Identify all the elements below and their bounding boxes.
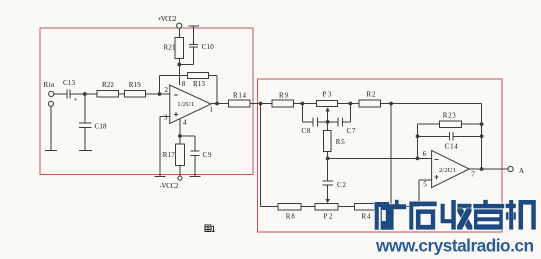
char shou 收 <box>441 200 472 230</box>
wire node down left rail <box>260 104 262 207</box>
potentiometer P3 <box>316 100 337 106</box>
svg-text:3: 3 <box>164 114 168 122</box>
P2 wiper arrow <box>325 199 329 203</box>
wire R4 to pin 5 branch <box>375 206 419 208</box>
wire C14 left <box>418 135 450 137</box>
ground bar below C9 <box>190 175 201 177</box>
U1b minus sign <box>434 159 438 161</box>
resistor R19 <box>124 91 145 97</box>
svg-text:R14: R14 <box>233 92 247 100</box>
input terminal Rin upper <box>49 91 54 96</box>
wire R2 node down to bottom rail <box>390 104 392 207</box>
wire C8 to wiper node <box>318 121 328 123</box>
capacitor C9 <box>190 151 199 155</box>
svg-text:C7: C7 <box>347 127 357 135</box>
wire pin4 node to R17 <box>179 136 181 144</box>
svg-text:C9: C9 <box>203 151 213 159</box>
resistor R22 <box>97 91 118 97</box>
wire bottom rail left <box>261 206 279 208</box>
resistor R4 <box>354 204 374 210</box>
node junction R21/C10/pin8 <box>177 63 181 67</box>
input terminal Rin lower <box>48 101 53 106</box>
wire wiper node down to R5 <box>327 122 329 131</box>
wire R2 right to corner <box>380 103 481 105</box>
svg-text:R5: R5 <box>336 138 346 146</box>
wire feedback to R13 <box>160 75 188 77</box>
U1 plus sign <box>174 112 178 116</box>
node junction R19/feedback/pin2 <box>158 92 162 96</box>
svg-text:P2: P2 <box>324 213 334 221</box>
wire +VCC2 terminal to R21 <box>178 28 180 37</box>
left red box (input stage frame) <box>40 28 253 175</box>
wire junction down to op-amp pin 8 <box>178 65 180 85</box>
svg-text:C13: C13 <box>63 79 76 87</box>
wire pin4 node to C9 <box>180 135 195 137</box>
svg-text:1/2U1: 1/2U1 <box>177 101 194 108</box>
svg-text:-VCC2: -VCC2 <box>160 182 180 190</box>
wire R17 to -VCC2 terminal <box>179 166 181 176</box>
resistor R13 <box>188 72 209 78</box>
node junction wiper/C8/C7/R5 <box>326 120 330 124</box>
svg-text:R19: R19 <box>129 81 142 89</box>
node junction R9/C8/P3 <box>301 102 305 106</box>
C10 +VCC2 tap bar <box>189 25 200 27</box>
P3 wiper arrow <box>325 107 329 111</box>
node junction pin6/feedback <box>416 157 420 161</box>
svg-text:5: 5 <box>423 180 427 188</box>
op-amp U1 (1/2U1) <box>170 85 211 124</box>
svg-text:7: 7 <box>471 171 475 179</box>
node junction R2/bottom vertical <box>389 102 393 106</box>
wire R8 to P2 <box>301 206 315 208</box>
wire feedback left vertical <box>417 124 419 158</box>
resistor R9 <box>272 100 293 107</box>
char ji 机 <box>506 200 536 230</box>
wire to C8 <box>302 121 312 123</box>
resistor R5 <box>323 131 331 152</box>
wire C13 to junction <box>71 93 97 95</box>
wire C18 to ground <box>84 127 86 150</box>
wire op-amp 1 output to R14 <box>211 103 229 105</box>
resistor R21 <box>175 37 183 58</box>
wire R13 branch down to node 1 <box>216 76 218 104</box>
capacitor C13 <box>67 89 70 98</box>
node output 1 junction <box>215 102 219 106</box>
resistor R2 <box>359 100 380 107</box>
svg-text:P3: P3 <box>323 91 333 99</box>
ground bar below pin 3 <box>155 175 166 177</box>
wire lower input terminal to ground <box>50 107 52 151</box>
svg-text:2: 2 <box>165 86 169 94</box>
svg-text:C14: C14 <box>445 142 459 150</box>
char shi 石 <box>409 202 436 230</box>
wire op-amp pin 3 stub <box>160 115 170 117</box>
ground bar below C18 <box>79 150 92 152</box>
wire op-amp pin 4 down <box>179 119 181 136</box>
op-amp U1b (2/2U1) <box>432 150 470 187</box>
svg-text:R8: R8 <box>286 213 296 221</box>
wire C9 top vertical <box>194 136 196 151</box>
svg-text:R21: R21 <box>164 44 177 52</box>
wire op-amp 2 output to terminal A <box>469 168 508 170</box>
node junction R5/C2/pin6 wire <box>326 157 330 161</box>
node junction pin4/R17/C9 <box>178 134 182 138</box>
wire junction down to C18 <box>84 94 86 123</box>
svg-text:2/2U1: 2/2U1 <box>439 167 456 174</box>
svg-text:www.crystalradio.cn: www.crystalradio.cn <box>375 236 534 256</box>
svg-text:R2: R2 <box>367 91 377 99</box>
U1b plus sign <box>434 175 438 179</box>
resistor R14 <box>229 100 250 107</box>
right red box (tone control frame) <box>258 79 503 232</box>
wire C9 to ground <box>194 155 196 176</box>
svg-text:1: 1 <box>210 106 214 114</box>
svg-text:R9: R9 <box>279 92 289 100</box>
wire junction to C10 bottom <box>179 64 193 66</box>
wire R21 to junction <box>178 59 180 65</box>
svg-text:C18: C18 <box>95 123 108 131</box>
char kuang 矿 <box>375 200 407 230</box>
wire R5 node to op-amp 2 pin 6 <box>328 157 432 159</box>
capacitor C8 <box>313 118 317 127</box>
svg-text:4: 4 <box>183 119 187 127</box>
ground bar below Rin <box>45 150 57 152</box>
resistor R17 <box>176 144 185 166</box>
wire up to node after P3 <box>349 104 351 122</box>
node junction output 7 <box>480 167 484 171</box>
svg-text:R13: R13 <box>193 80 206 88</box>
wire C7 to right vertical <box>343 121 351 123</box>
svg-text:R23: R23 <box>443 112 457 120</box>
node junction R14/R9/bottom rail <box>259 102 263 106</box>
node junction P3/C7/R2 <box>349 102 353 106</box>
wire R22 to R19 <box>118 93 124 95</box>
wire P3 right to R2 <box>337 103 359 105</box>
wire to R23 <box>418 123 440 125</box>
wire P3 wiper <box>327 111 329 122</box>
svg-text:R4: R4 <box>362 213 372 221</box>
wire R19 to op-amp pin 2 <box>145 93 170 95</box>
potentiometer P2 <box>315 204 338 210</box>
wire pin 5 vertical <box>418 180 420 207</box>
node junction C13/C18/R22 <box>83 92 87 96</box>
wire C2 top <box>327 158 329 180</box>
watermark 矿石收音机 (drawn strokes) <box>375 200 536 230</box>
svg-text:A: A <box>519 167 524 175</box>
wire C2 bottom to P2 wiper <box>327 185 329 201</box>
-VCC2 terminal <box>178 176 182 180</box>
wire R14 to right section node <box>250 103 272 105</box>
capacitor C10 <box>189 44 198 47</box>
wire pin 3 down to ground <box>159 116 161 176</box>
node junction C14 left <box>416 134 420 138</box>
wire C10 top to +VCC2 bar <box>193 26 195 44</box>
wire node down to C8 <box>301 104 303 122</box>
node junction R23 right <box>480 122 484 126</box>
wire R13 to output branch <box>208 75 217 77</box>
capacitor C18 <box>79 123 92 127</box>
wire P2 to R4 <box>338 206 355 208</box>
node junction C14 right <box>480 134 484 138</box>
label figure 图1 (drawn glyph) <box>205 225 215 232</box>
svg-text:8: 8 <box>182 80 186 88</box>
capacitor C2 <box>322 181 333 185</box>
resistor R23 <box>439 121 461 128</box>
svg-text:R22: R22 <box>102 81 115 89</box>
wire corner down to R23 node <box>481 104 483 170</box>
wire feedback node up <box>159 76 161 95</box>
wire wiper node to C7 <box>328 121 338 123</box>
char yin 音 <box>473 200 504 230</box>
U1 minus sign <box>174 94 178 96</box>
wire R5 to lower node <box>327 152 329 159</box>
wire C14 right <box>453 135 481 137</box>
wire R23 to right vertical <box>462 123 482 125</box>
output terminal A <box>508 166 513 171</box>
svg-text:+VCC2: +VCC2 <box>158 15 178 23</box>
svg-text:6: 6 <box>423 150 427 158</box>
resistor R8 <box>278 204 301 210</box>
wire input top terminal to C13 <box>54 93 66 95</box>
capacitor C7 <box>338 118 342 127</box>
wire C10 bottom vertical <box>193 47 195 65</box>
+VCC2 terminal <box>177 23 182 28</box>
svg-text:C8: C8 <box>301 127 311 135</box>
wire R9 to node <box>294 103 317 105</box>
svg-text:C10: C10 <box>202 43 215 51</box>
svg-text:C2: C2 <box>337 181 347 189</box>
svg-text:Rin: Rin <box>44 81 56 89</box>
capacitor C14 <box>449 132 453 141</box>
svg-text:+: + <box>74 96 78 104</box>
wire pin 5 horizontal <box>419 179 432 181</box>
svg-text:R17: R17 <box>163 151 176 159</box>
